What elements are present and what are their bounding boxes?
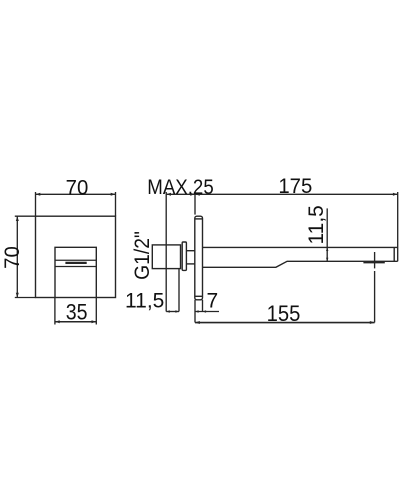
svg-text:7: 7 <box>206 289 218 312</box>
dimension 11,5 bottom: right extension line <box>178 269 180 312</box>
label 155 <box>267 302 301 326</box>
dimension 11,5 bottom: arrowheads <box>166 310 179 312</box>
dimension 70 top: dimension line <box>36 193 116 195</box>
side view: wall plate <box>195 216 203 300</box>
side view: spout bottom profile <box>203 261 398 267</box>
front view: spout lower slot line <box>55 266 96 268</box>
dimension MAX.25 / 175: shared dimension line <box>166 193 398 195</box>
front view: spout upper slot line <box>55 259 96 261</box>
svg-text:G1/2": G1/2" <box>131 231 154 280</box>
side view: threaded pipe G1/2 <box>152 245 180 269</box>
label 70 (top) <box>66 176 89 199</box>
svg-text:175: 175 <box>278 175 312 198</box>
front view: spout body rectangle <box>55 247 96 297</box>
side view: stem top line <box>186 250 194 252</box>
dimension 70 left: arrowheads <box>16 216 19 297</box>
svg-text:MAX.25: MAX.25 <box>147 176 213 199</box>
side view: stem bottom line <box>186 263 194 265</box>
dimension 7: right extension line <box>202 300 204 312</box>
side view: flange collar <box>182 242 186 270</box>
label 7 <box>206 289 218 312</box>
label MAX.25 <box>147 176 213 199</box>
dimension 35: arrowheads <box>55 320 96 323</box>
side view: spout top edge <box>203 246 398 248</box>
dimension 11,5 bottom: dimension line <box>166 311 179 313</box>
front view: aerator slot (thick) <box>65 262 86 264</box>
svg-text:35: 35 <box>66 300 88 324</box>
dimension 7: left extension line (plate left, continues to 155 line) <box>194 300 196 323</box>
svg-text:11,5: 11,5 <box>305 205 328 244</box>
svg-text:70: 70 <box>1 246 24 269</box>
label 175 <box>278 175 312 198</box>
dimension 7: arrowheads <box>195 310 206 312</box>
label 70 (left, rotated) <box>1 246 24 269</box>
svg-text:11,5: 11,5 <box>125 289 164 312</box>
label 11,5 (bottom left) <box>125 289 164 312</box>
dimension 155: centerline extension at slot center <box>374 252 376 323</box>
dimension MAX.25: right extension line <box>194 192 196 215</box>
dimension 11,5 right: arrowheads <box>326 247 328 261</box>
dimension 155: dimension line <box>195 322 375 324</box>
dimension MAX.25: left extension line / thread line <box>165 192 167 312</box>
label 11,5 (right, rotated) <box>305 205 328 244</box>
dimension 70 top: arrowheads <box>36 193 116 196</box>
dimension MAX.25 / 175: arrowheads <box>166 193 398 196</box>
svg-text:155: 155 <box>267 302 301 326</box>
dimension 11,5 right: vertical dimension line <box>326 208 328 261</box>
front view: wall plate square 70x70 <box>36 216 116 297</box>
dimension 35: dimension line <box>55 321 96 323</box>
dimension 35: extension lines <box>55 298 96 325</box>
dimension 70 left: dimension line <box>16 216 18 297</box>
dimension 70 left: extension lines <box>15 216 36 297</box>
dimension 70 top: extension lines <box>36 192 116 216</box>
side view: spout tip outer edge with extension line to dimension <box>397 192 399 261</box>
dimension 155: arrowheads <box>195 321 375 324</box>
svg-text:70: 70 <box>66 176 89 199</box>
label G1/2" (rotated) <box>131 231 154 280</box>
side view: aerator slot (thick) <box>363 261 384 263</box>
dimension 7: dimension line <box>195 311 219 313</box>
side view: spout tip inner edge <box>393 247 395 261</box>
label 35 <box>66 300 88 324</box>
